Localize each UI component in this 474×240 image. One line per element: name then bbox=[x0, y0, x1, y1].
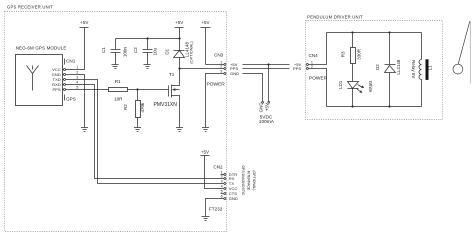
svg-text:White: White bbox=[368, 81, 373, 93]
svg-text:+5V: +5V bbox=[265, 103, 270, 111]
svg-text:GPS RECEIVER UNIT: GPS RECEIVER UNIT bbox=[7, 4, 53, 9]
svg-text:1: 1 bbox=[76, 66, 78, 70]
svg-text:GPS DIAGNOSTIC: GPS DIAGNOSTIC bbox=[241, 165, 245, 196]
svg-text:CN2: CN2 bbox=[213, 165, 223, 170]
svg-text:GND: GND bbox=[229, 196, 238, 201]
svg-text:D1: D1 bbox=[164, 48, 169, 54]
svg-text:POWER: POWER bbox=[207, 81, 226, 87]
svg-text:LD1: LD1 bbox=[338, 80, 343, 89]
svg-text:R3: R3 bbox=[341, 51, 346, 57]
svg-text:FT232: FT232 bbox=[209, 206, 223, 211]
svg-text:5: 5 bbox=[76, 86, 78, 90]
svg-text:330R: 330R bbox=[356, 48, 361, 60]
svg-text:100mA: 100mA bbox=[259, 119, 275, 125]
svg-text:(OPTIONAL): (OPTIONAL) bbox=[252, 170, 256, 190]
svg-text:2: 2 bbox=[311, 65, 313, 69]
svg-text:4: 4 bbox=[76, 81, 78, 85]
svg-text:L1: L1 bbox=[428, 65, 433, 71]
svg-text:C1: C1 bbox=[101, 47, 106, 53]
svg-text:5: 5 bbox=[221, 190, 223, 194]
svg-text:2: 2 bbox=[220, 65, 222, 69]
svg-text:PMV31XN: PMV31XN bbox=[154, 102, 178, 108]
svg-text:+5V: +5V bbox=[201, 150, 209, 155]
svg-text:470k: 470k bbox=[140, 102, 145, 113]
svg-text:GPS: GPS bbox=[66, 96, 76, 101]
svg-text:6: 6 bbox=[221, 195, 223, 199]
svg-text:C2: C2 bbox=[133, 47, 138, 53]
svg-text:3: 3 bbox=[220, 70, 222, 74]
svg-text:10R: 10R bbox=[114, 96, 123, 101]
svg-text:10u: 10u bbox=[153, 47, 158, 55]
svg-text:PENDULUM DRIVER UNIT: PENDULUM DRIVER UNIT bbox=[307, 14, 363, 19]
svg-text:NEO-6M GPS MODULE: NEO-6M GPS MODULE bbox=[16, 46, 67, 51]
svg-text:D2: D2 bbox=[375, 64, 380, 70]
svg-text:GND: GND bbox=[230, 71, 239, 76]
svg-text:Relay 5V: Relay 5V bbox=[411, 60, 416, 78]
svg-text:LL4148: LL4148 bbox=[396, 59, 401, 75]
svg-text:PPS: PPS bbox=[293, 66, 301, 71]
svg-text:100n: 100n bbox=[123, 47, 128, 58]
svg-text:CN4: CN4 bbox=[309, 53, 319, 58]
svg-text:4: 4 bbox=[221, 185, 223, 189]
svg-text:POWER: POWER bbox=[309, 75, 328, 81]
svg-text:(OPTIONAL): (OPTIONAL) bbox=[188, 41, 193, 64]
svg-text:+5V: +5V bbox=[175, 20, 183, 25]
svg-text:R1: R1 bbox=[115, 79, 121, 84]
svg-text:2: 2 bbox=[76, 71, 78, 75]
svg-text:CN3: CN3 bbox=[214, 53, 224, 58]
svg-text:+5V: +5V bbox=[80, 20, 88, 25]
svg-text:3: 3 bbox=[221, 180, 223, 184]
svg-text:2: 2 bbox=[221, 175, 223, 179]
svg-text:PPS: PPS bbox=[53, 87, 61, 92]
svg-text:T1: T1 bbox=[169, 72, 175, 77]
svg-text:R2: R2 bbox=[123, 104, 128, 110]
svg-text:3: 3 bbox=[76, 76, 78, 80]
svg-text:+5V: +5V bbox=[201, 20, 209, 25]
svg-text:GND: GND bbox=[259, 102, 264, 113]
svg-text:CN1: CN1 bbox=[66, 59, 76, 64]
svg-text:INTERFACE: INTERFACE bbox=[247, 171, 251, 191]
